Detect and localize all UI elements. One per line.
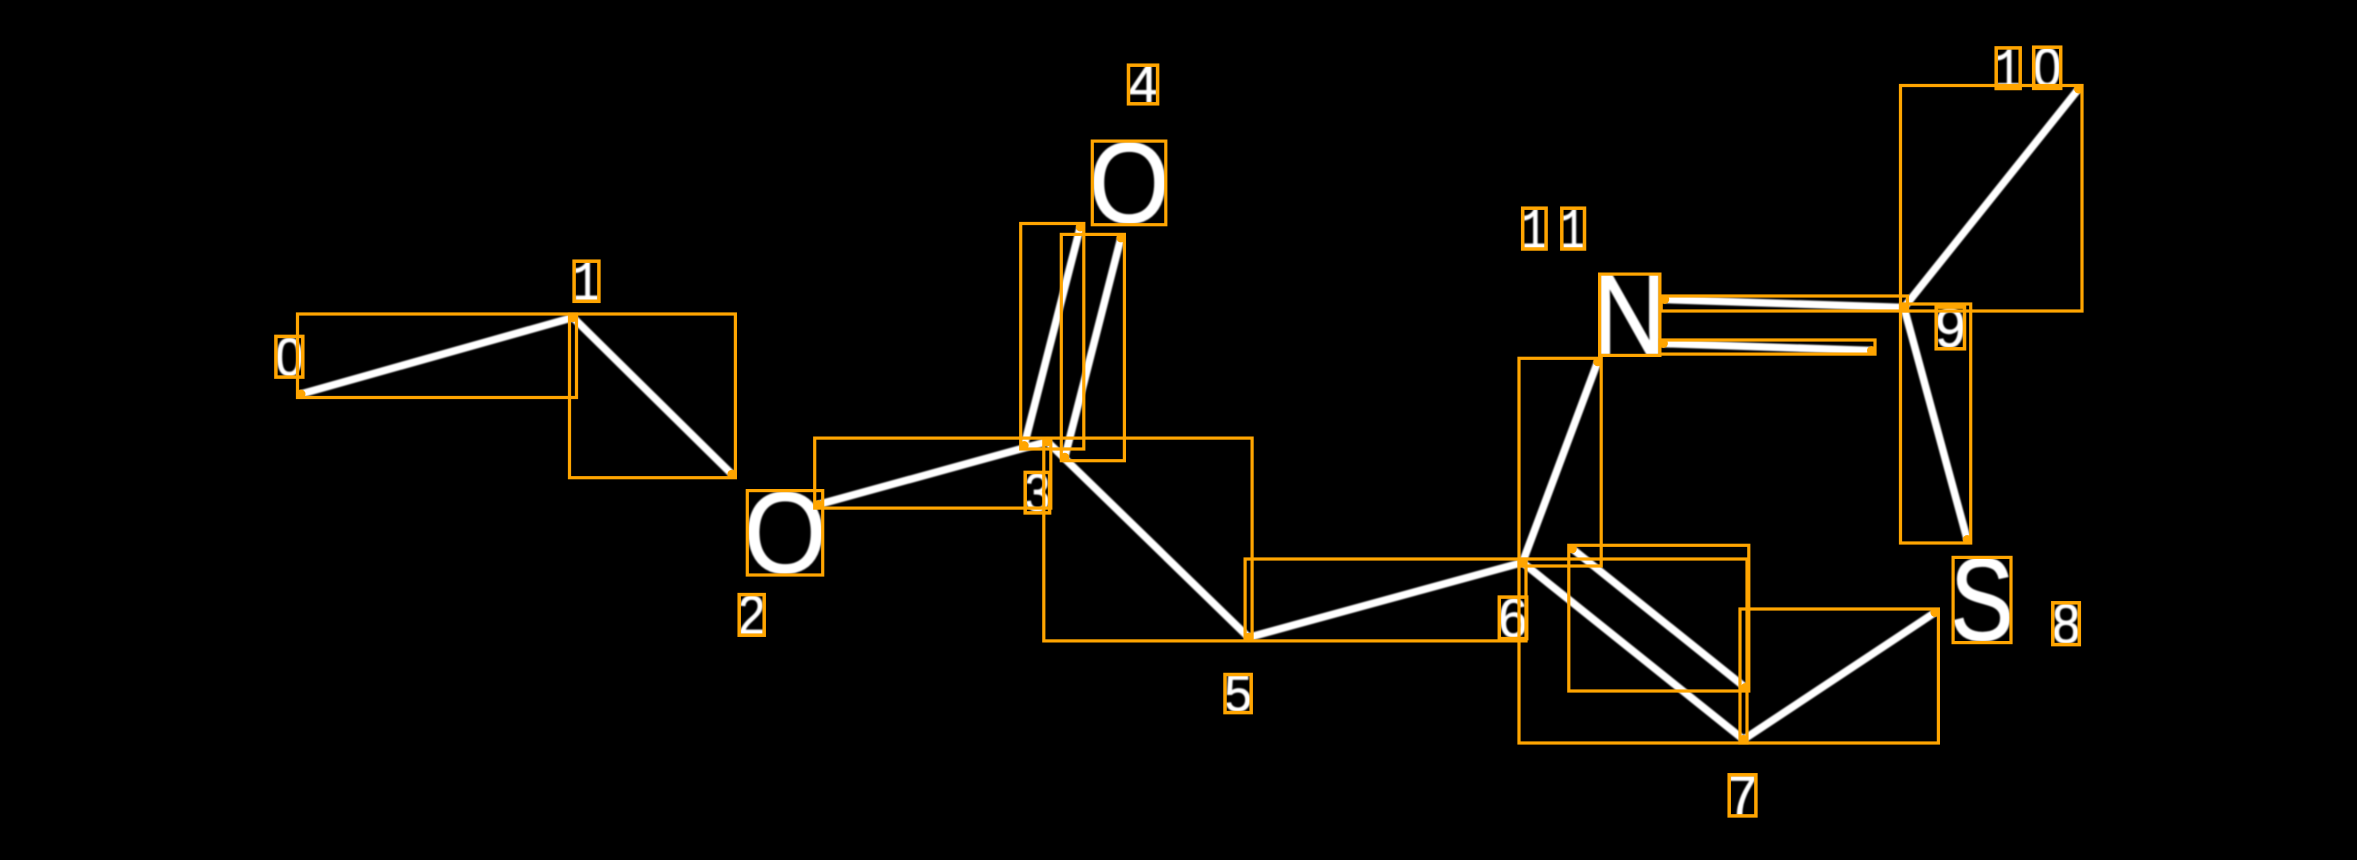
- bounding box of double bond C3=O4 line a: [1021, 224, 1084, 450]
- endpoint markers of bond C0-C1: [297, 390, 306, 399]
- bounding box of index label 7 digit 7: [1729, 775, 1756, 816]
- svg-text:S: S: [1950, 534, 2014, 665]
- bounding box of bond C5-C6: [1245, 559, 1526, 641]
- endpoint markers of bond O2-C3: [814, 500, 823, 509]
- wire double bond C6=C7 line b: [1572, 549, 1745, 688]
- bounding box of index label 4 digit 4: [1129, 65, 1158, 104]
- endpoint markers of double bond C3=O4 line b: [1060, 453, 1069, 462]
- endpoint markers of bond C3-C5: [1043, 437, 1052, 446]
- svg-text:O: O: [1089, 120, 1170, 248]
- endpoint markers of bond C6-N11: [1518, 558, 1527, 567]
- endpoint markers of bond C5-C6: [1244, 633, 1253, 642]
- bounding box of bond C0-C1: [298, 314, 577, 398]
- wire double bond C3=O4 line a: [1024, 227, 1080, 446]
- bounding box of index label 10 digit 1: [1996, 48, 2020, 89]
- bounding box of index label 5 digit 5: [1225, 675, 1251, 713]
- wire bond C0-C1: [301, 318, 573, 395]
- svg-text:N: N: [1593, 252, 1667, 379]
- bounding box of bond O2-C3: [815, 438, 1051, 508]
- endpoint markers of double bond C3=O4 line a: [1020, 441, 1029, 450]
- wire bond C6-N11: [1523, 362, 1598, 563]
- bounding box of bond C6-N11: [1519, 358, 1601, 566]
- bounding box of bond C3-C5: [1044, 438, 1252, 641]
- bounding box of index label 9 digit 9: [1936, 307, 1964, 349]
- bounding box of atom O4 label: [1092, 141, 1166, 225]
- wire bond C1-O2: [573, 318, 732, 475]
- bounding box of double bond C6=C7 line a: [1519, 559, 1747, 743]
- endpoint markers of double bond N11=C9 line a: [1660, 295, 1669, 304]
- wire bond C9-C10: [1904, 89, 2079, 308]
- bounding box of index label 11 second digit 1: [1562, 208, 1585, 249]
- endpoint markers of double bond C6=C7 line b: [1568, 544, 1577, 553]
- bounding box of index label 11 first digit 1: [1523, 208, 1546, 249]
- bounding box of double bond N11=C9 line b: [1660, 340, 1875, 354]
- bounding box of double bond C3=O4 line b: [1061, 234, 1124, 460]
- wire bond S8-C7: [1744, 613, 1935, 740]
- wire double bond N11=C9 line a: [1665, 300, 1904, 308]
- bounding box of index label 10 digit 0: [2034, 47, 2061, 88]
- wire bond O2-C3: [818, 442, 1047, 505]
- bounding box of double bond N11=C9 line a: [1661, 296, 1907, 311]
- bounding box of bond S8-C7: [1740, 609, 1938, 743]
- svg-text:1: 1: [1560, 201, 1585, 266]
- bounding box of index label 2 digit 2: [739, 595, 764, 636]
- endpoint markers of double bond C6=C7 line a: [1518, 558, 1527, 567]
- wire double bond N11=C9 line b: [1663, 344, 1871, 351]
- bounding box of index label 1 digit 1: [574, 261, 599, 301]
- endpoint markers of double bond N11=C9 line b: [1659, 339, 1668, 348]
- endpoint markers of bond C1-O2: [569, 313, 578, 322]
- bounding box of bond C1-O2: [570, 314, 736, 478]
- bounding box of bond C9-C10: [1901, 86, 2083, 312]
- endpoint markers of bond C9-C10: [1900, 303, 1909, 312]
- bounding box of double bond C6=C7 line b: [1569, 545, 1749, 691]
- bounding box of index label 0 digit 0: [276, 336, 303, 377]
- wire double bond C6=C7 line a: [1523, 563, 1744, 740]
- wire bond C5-C6: [1249, 563, 1523, 638]
- bounding box of index label 3 digit 3: [1025, 472, 1049, 513]
- bounding box of atom S8 label: [1953, 557, 2011, 642]
- svg-text:1: 1: [1521, 200, 1547, 266]
- bounding box of atom N11 label: [1600, 274, 1660, 355]
- endpoint markers of bond S8-C7: [1930, 608, 1939, 617]
- wire bond C9-S8: [1904, 308, 1967, 540]
- bounding box of index label 6 digit 6: [1499, 597, 1526, 639]
- endpoint markers of bond C9-S8: [1900, 303, 1909, 312]
- wire bond C3-C5: [1047, 442, 1248, 638]
- bounding box of atom O2 label: [747, 491, 822, 575]
- wire double bond C3=O4 line b: [1065, 238, 1121, 457]
- bounding box of index label 8 digit 8: [2053, 603, 2080, 645]
- bounding box of bond C9-S8: [1901, 304, 1971, 543]
